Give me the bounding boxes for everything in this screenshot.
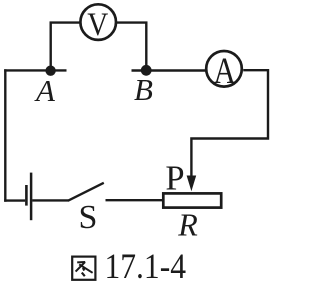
battery [26,173,31,221]
svg-text:R: R [177,207,198,243]
node A [45,66,55,76]
svg-text:P: P [165,159,184,197]
wire: ammeter right lead, right side down and across to slider [191,70,268,179]
caption: character 图 drawn as strokes [72,257,95,280]
wire: battery to switch pivot [32,199,68,201]
svg-text:A: A [213,51,236,92]
wire: left vertical side [4,69,6,201]
node B [141,65,152,76]
wire: top-left horizontal through node A [4,69,66,71]
wire: voltmeter right lead down to node B [117,23,147,70]
wire: node B stub to ammeter [132,69,207,71]
switch S blade [68,183,104,201]
svg-text:S: S [79,199,98,236]
wire: bottom-left horizontal to battery [4,199,25,201]
rheostat R body [163,193,221,207]
svg-text:A: A [34,73,56,108]
wire: voltmeter left lead down to node A [51,23,80,70]
svg-text:V: V [87,7,108,43]
voltmeter V [80,4,116,43]
svg-text:B: B [134,72,153,107]
wire: switch contact to rheostat [106,199,163,201]
svg-text:17.1-4: 17.1-4 [105,246,187,286]
ammeter A [206,51,242,92]
slider P arrowhead [187,176,197,192]
